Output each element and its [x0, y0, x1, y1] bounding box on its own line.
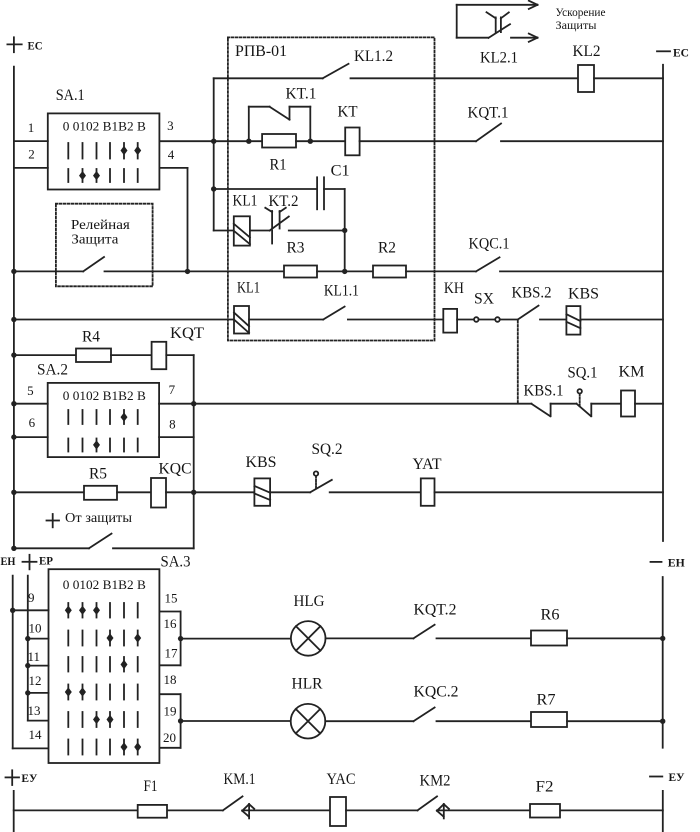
dashed enclosure relay protection	[56, 204, 153, 287]
wire KL1.2 row left	[214, 77, 323, 79]
relay coil KL2	[578, 65, 594, 92]
switch block SA.3 contact diamonds row 3	[121, 660, 128, 669]
wire KQT.1 to right bus	[501, 140, 663, 142]
contact KL1.1	[323, 307, 344, 320]
wire KT to KQT.1	[360, 140, 476, 142]
mechanical link KBS.2 to KBS.1	[517, 321, 519, 404]
svg-text:ЕН: ЕН	[1, 554, 17, 568]
relay coil KM	[621, 391, 635, 417]
svg-text:От защиты: От защиты	[65, 511, 133, 526]
wire KBS.2 to KBS coil	[540, 319, 566, 321]
contact SQ.1	[577, 389, 592, 416]
resistor R7	[531, 712, 567, 727]
switch block SA.3 position ticks row 5	[68, 712, 137, 727]
svg-text:8: 8	[169, 416, 176, 431]
junction EP pin10	[25, 636, 30, 641]
relay coil KH	[443, 309, 457, 333]
electromagnet coil YAC	[330, 797, 346, 826]
resistor R3	[284, 266, 317, 278]
switch block SA.1 position ticks row 1	[68, 143, 137, 159]
svg-text:KL2.1: KL2.1	[480, 50, 518, 67]
wire KBS to SQ.2	[270, 491, 310, 493]
relay coil KQC	[151, 478, 166, 508]
wire left bus EC	[13, 67, 15, 549]
wire EP bus left	[28, 576, 49, 721]
junction tab 16-17	[178, 636, 183, 641]
svg-text:YAC: YAC	[327, 771, 356, 788]
wire KH to SX	[457, 319, 474, 321]
wire to KL1 coil	[214, 230, 234, 232]
svg-text:KM2: KM2	[420, 773, 451, 790]
svg-text:KM: KM	[619, 363, 645, 380]
svg-text:KQT.2: KQT.2	[414, 602, 457, 619]
svg-text:C1: C1	[331, 162, 350, 179]
wire KM2 to F2	[437, 809, 663, 811]
contact KT.2 (time delay)	[265, 208, 289, 244]
switch block SA.3 contact diamonds row 5	[93, 715, 114, 724]
wire SX to KBS.2	[500, 319, 518, 321]
pin 5 wire	[14, 403, 48, 405]
wire KQC to KBS	[166, 491, 254, 493]
svg-text:KQC.2: KQC.2	[414, 684, 459, 701]
wire KL2 to right bus	[594, 77, 663, 79]
pin 11 wire	[28, 665, 49, 667]
relay coil KBS (row YAT)	[254, 478, 270, 505]
wire HLR to KQC.2	[325, 720, 413, 722]
svg-text:F1: F1	[144, 778, 158, 795]
svg-text:9: 9	[28, 590, 35, 605]
switch block SA.1 body	[48, 113, 160, 189]
switch block SA.2 contact diamonds row 2	[93, 440, 100, 449]
svg-text:KL1.1: KL1.1	[324, 282, 359, 299]
relay coil YAT	[421, 478, 435, 505]
wire R1 to KT	[296, 140, 345, 142]
junction left bus pin5	[11, 401, 16, 406]
arrow to acceleration (top)	[457, 1, 538, 9]
contact KQT.1	[476, 124, 501, 142]
wire KQT right with drop	[166, 355, 193, 548]
contact KBS.2	[518, 306, 539, 320]
wire left bus to R5	[14, 491, 84, 493]
svg-text:12: 12	[29, 673, 42, 688]
switch block SA.2 contact diamonds row 1	[121, 412, 128, 421]
switch block SA.3 position ticks row 6	[68, 740, 137, 755]
svg-text:20: 20	[163, 730, 176, 745]
wire YAC to KM2	[346, 809, 418, 811]
junction node C1 row	[211, 186, 216, 191]
wire KT.2 to C1 node	[289, 230, 345, 232]
wire C1 branch left	[214, 188, 317, 190]
wire EY row left	[14, 809, 223, 811]
label + От защиты	[47, 511, 133, 527]
switch block SA.2 position ticks row 2	[68, 439, 137, 452]
svg-text:R6: R6	[541, 607, 560, 624]
svg-text:KQT: KQT	[170, 325, 204, 342]
label Релейная Защита	[71, 218, 131, 248]
wire R3 to R2	[317, 270, 373, 272]
wire vertical node left of RPV	[213, 78, 215, 230]
wire KBS to right bus	[580, 319, 663, 321]
svg-text:1: 1	[28, 120, 35, 135]
capacitor C1	[317, 177, 324, 209]
junction pin7 node	[191, 401, 196, 406]
svg-text:6: 6	[29, 415, 36, 430]
svg-text:KBS: KBS	[568, 286, 599, 303]
wire R4 to KQT	[111, 354, 152, 356]
wire KBS.1 to SQ.1	[551, 403, 577, 405]
wire right bus EC	[662, 65, 664, 541]
switch block SA.1 position ticks row 2	[68, 169, 137, 182]
pin 10 wire	[28, 638, 49, 640]
svg-text:SQ.2: SQ.2	[312, 441, 343, 458]
wire C1 right with drop	[324, 189, 345, 271]
fuse F1	[138, 805, 167, 818]
svg-text:11: 11	[28, 649, 41, 664]
contact KL2.1	[487, 12, 511, 38]
wire EY bus right	[662, 791, 664, 832]
wire protection row left	[14, 270, 83, 272]
svg-text:Релейная: Релейная	[71, 218, 131, 233]
junction left bus R4 row	[11, 352, 16, 357]
pin 8 wire	[159, 436, 194, 438]
junction left bus protection row	[11, 269, 16, 274]
wire protection to R3	[105, 270, 285, 272]
junction KQC node	[191, 490, 196, 495]
svg-text:SQ.1: SQ.1	[568, 364, 598, 381]
svg-text:SA.1: SA.1	[56, 87, 85, 104]
svg-text:3: 3	[167, 118, 174, 133]
wire KL1 to KT.2	[250, 230, 270, 232]
pin 6 wire	[14, 436, 48, 438]
wire KL2.1 bracket	[457, 5, 488, 38]
wire KM to right bus	[635, 403, 663, 405]
svg-text:0 0102 В1В2 В: 0 0102 В1В2 В	[63, 577, 146, 592]
resistor R5	[84, 486, 117, 500]
svg-text:KL1: KL1	[237, 279, 260, 296]
resistor R4	[76, 349, 111, 363]
svg-text:KBS: KBS	[246, 454, 277, 471]
junction node R1 row	[211, 139, 216, 144]
relay coil KL1	[234, 216, 250, 245]
junction left bus KL1 row	[11, 317, 16, 322]
wire SQ.1 to KM	[591, 403, 621, 405]
svg-text:YAT: YAT	[413, 456, 442, 473]
pins 19-20 output tab	[159, 694, 180, 748]
wire KL1.1 to KH	[348, 319, 443, 321]
contact KM2	[418, 796, 449, 818]
junction EP pin12	[25, 690, 30, 695]
contact KBS.1	[531, 404, 550, 417]
junction left bus R5 row	[11, 490, 16, 495]
wire R5 to KQC	[117, 491, 151, 493]
wire KL1 to KL1.1	[249, 319, 323, 321]
relay coil KL1 (output)	[234, 306, 249, 334]
lamp HLG	[291, 621, 326, 656]
svg-text:Защита: Защита	[71, 233, 119, 248]
pin 2 wire	[14, 167, 48, 169]
contact KT.1 (NC over R1)	[249, 107, 310, 142]
wire SQ.2 to YAT	[330, 491, 421, 493]
svg-text:ЕС: ЕС	[28, 38, 43, 52]
switch block SA.3 position ticks row 4	[68, 685, 137, 700]
switch block SA.3 body	[49, 569, 160, 763]
svg-text:F2: F2	[536, 779, 554, 796]
svg-text:KT.2: KT.2	[269, 193, 299, 210]
junction right bus HLR row	[660, 719, 665, 724]
wire KQT.2 to R6	[437, 637, 532, 639]
svg-text:5: 5	[27, 383, 33, 398]
switch block SA.3 position ticks row 1	[68, 603, 137, 618]
svg-text:ЕС: ЕС	[673, 45, 689, 59]
pin 1 wire	[14, 140, 48, 142]
contact SQ.2	[310, 471, 332, 492]
svg-text:KM.1: KM.1	[224, 771, 256, 788]
contact KQC.1	[476, 257, 500, 271]
pin 9 wire	[13, 609, 49, 611]
lamp HLR	[291, 704, 326, 739]
resistor R6	[531, 631, 567, 646]
svg-text:ЕР: ЕР	[39, 554, 53, 568]
wire KL1.2 to KL2	[351, 77, 579, 79]
svg-text:7: 7	[169, 382, 176, 397]
wire KQC.1 to right bus	[500, 270, 663, 272]
wire tab to HLR	[181, 720, 291, 722]
svg-text:KT: KT	[338, 103, 358, 120]
junction R1 right	[308, 139, 313, 144]
svg-text:Ускорение: Ускорение	[556, 5, 606, 19]
positive supply terminal +EC	[7, 37, 21, 52]
svg-text:KL1: KL1	[233, 192, 258, 209]
relay coil KQT	[152, 342, 167, 369]
junction right bus HLG row	[660, 636, 665, 641]
wire KQC.2 to R7	[437, 720, 532, 722]
contact KQC.2	[413, 708, 434, 722]
svg-text:15: 15	[165, 590, 178, 605]
svg-text:SX: SX	[474, 290, 494, 307]
svg-text:19: 19	[164, 704, 177, 719]
svg-text:R7: R7	[537, 692, 556, 709]
junction EP pin11	[25, 663, 30, 668]
switch block SA.3 position ticks row 3	[68, 657, 137, 672]
resistor R2	[373, 266, 406, 278]
wire tab to HLG	[181, 638, 291, 640]
junction R3 R2 node	[342, 269, 347, 274]
wire left bus to KL1 coil	[14, 319, 234, 321]
junction SA.1 pin4 node	[185, 269, 190, 274]
switch block SA.3 contact diamonds row 2	[107, 633, 142, 642]
svg-text:16: 16	[164, 616, 178, 631]
svg-text:SA.3: SA.3	[161, 554, 191, 571]
svg-text:Защиты: Защиты	[556, 18, 597, 32]
wire HLG to KQT.2	[326, 637, 414, 639]
wire YAT to right bus	[435, 491, 664, 493]
switch block SA.2 position ticks row 1	[68, 410, 137, 424]
svg-text:14: 14	[29, 727, 43, 742]
junction EH pin9	[10, 608, 15, 613]
contact relay protection	[83, 257, 104, 271]
wire left bus to R4	[14, 354, 76, 356]
svg-text:KL2: KL2	[573, 43, 601, 60]
negative supply terminal -EC	[657, 50, 670, 52]
contact KM.1	[223, 796, 254, 818]
pin 12 wire	[28, 692, 49, 694]
wire KM.1 to YAC	[242, 809, 330, 811]
junction R1 left	[246, 139, 251, 144]
wire R7 to right bus	[567, 720, 663, 722]
positive terminal +EY	[6, 770, 20, 785]
svg-text:KBS.1: KBS.1	[524, 382, 564, 399]
contact KQT.2	[413, 625, 434, 639]
switch block SA.1 contact diamonds row 2	[79, 171, 100, 180]
switch block SA.1 contact diamonds row 1	[121, 146, 142, 155]
test jack SX	[474, 317, 500, 322]
svg-text:R3: R3	[287, 239, 305, 256]
negative terminal -EH	[651, 561, 662, 563]
svg-text:4: 4	[168, 147, 175, 162]
switch block SA.3 contact diamonds row 1	[65, 606, 100, 615]
junction C1 drop at KT.2 row	[342, 228, 347, 233]
svg-text:0 0102 В1В2 В: 0 0102 В1В2 В	[63, 388, 146, 403]
svg-text:17: 17	[165, 646, 179, 661]
wire EY bus left	[13, 791, 15, 832]
contact from protection	[89, 534, 112, 549]
svg-text:ЕУ: ЕУ	[21, 771, 37, 785]
svg-text:HLG: HLG	[294, 593, 325, 610]
svg-text:ЕН: ЕН	[668, 555, 686, 569]
svg-text:R4: R4	[82, 328, 100, 345]
pins 16-17 output tab	[159, 612, 180, 666]
svg-text:KQT.1: KQT.1	[468, 104, 509, 121]
junction left bus pin6	[11, 434, 16, 439]
arrow to acceleration (bottom)	[511, 34, 538, 42]
svg-text:KL1.2: KL1.2	[354, 48, 393, 65]
svg-text:18: 18	[164, 672, 177, 687]
wire R6 to right bus	[567, 637, 663, 639]
svg-text:SA.2: SA.2	[37, 362, 68, 379]
svg-text:0 0102 В1В2 В: 0 0102 В1В2 В	[63, 119, 146, 134]
wire R2 to KQC.1	[406, 270, 476, 272]
switch block SA.2 body	[48, 383, 159, 457]
svg-text:KQC.1: KQC.1	[469, 235, 510, 252]
label Ускорение Защиты	[556, 5, 606, 32]
wire EH bus right	[662, 577, 664, 748]
contact KL1.2	[323, 64, 349, 79]
negative terminal -EY	[650, 776, 662, 778]
positive terminal +EP	[23, 555, 37, 570]
resistor R1	[262, 134, 296, 148]
svg-text:KQC: KQC	[159, 460, 192, 477]
wire from protection left	[14, 547, 89, 549]
wire EH bus left	[13, 576, 49, 749]
svg-text:R5: R5	[89, 465, 107, 482]
relay coil KT	[345, 128, 359, 156]
svg-text:РПВ-01: РПВ-01	[235, 43, 287, 60]
svg-text:13: 13	[28, 703, 41, 718]
pin 4 wire	[159, 168, 187, 272]
svg-text:KH: KH	[444, 280, 464, 297]
svg-text:R1: R1	[270, 156, 287, 173]
svg-text:HLR: HLR	[292, 675, 323, 692]
wire from protection right	[113, 547, 194, 549]
switch block SA.3 contact diamonds row 6	[121, 742, 142, 751]
switch block SA.3 contact diamonds row 4	[65, 687, 86, 696]
junction tab 19-20	[178, 718, 183, 723]
dashed enclosure RPV-01	[228, 37, 435, 340]
svg-text:ЕУ: ЕУ	[669, 770, 685, 784]
pin 3 wire	[159, 140, 262, 142]
fuse F2	[530, 804, 560, 818]
svg-text:KT.1: KT.1	[286, 86, 317, 103]
svg-text:10: 10	[29, 621, 42, 636]
relay coil KBS	[566, 306, 580, 335]
pin 7 wire	[159, 403, 531, 405]
svg-text:R2: R2	[378, 239, 396, 256]
junction left bus end	[11, 546, 16, 551]
svg-text:2: 2	[28, 146, 35, 161]
switch block SA.3 position ticks row 2	[68, 631, 137, 646]
svg-text:KBS.2: KBS.2	[512, 284, 552, 301]
